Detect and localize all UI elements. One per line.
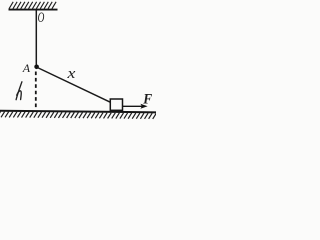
svg-text:x: x — [66, 64, 76, 81]
svg-text:A: A — [22, 61, 31, 75]
svg-text:F: F — [142, 92, 153, 108]
svg-text:O: O — [38, 9, 45, 26]
